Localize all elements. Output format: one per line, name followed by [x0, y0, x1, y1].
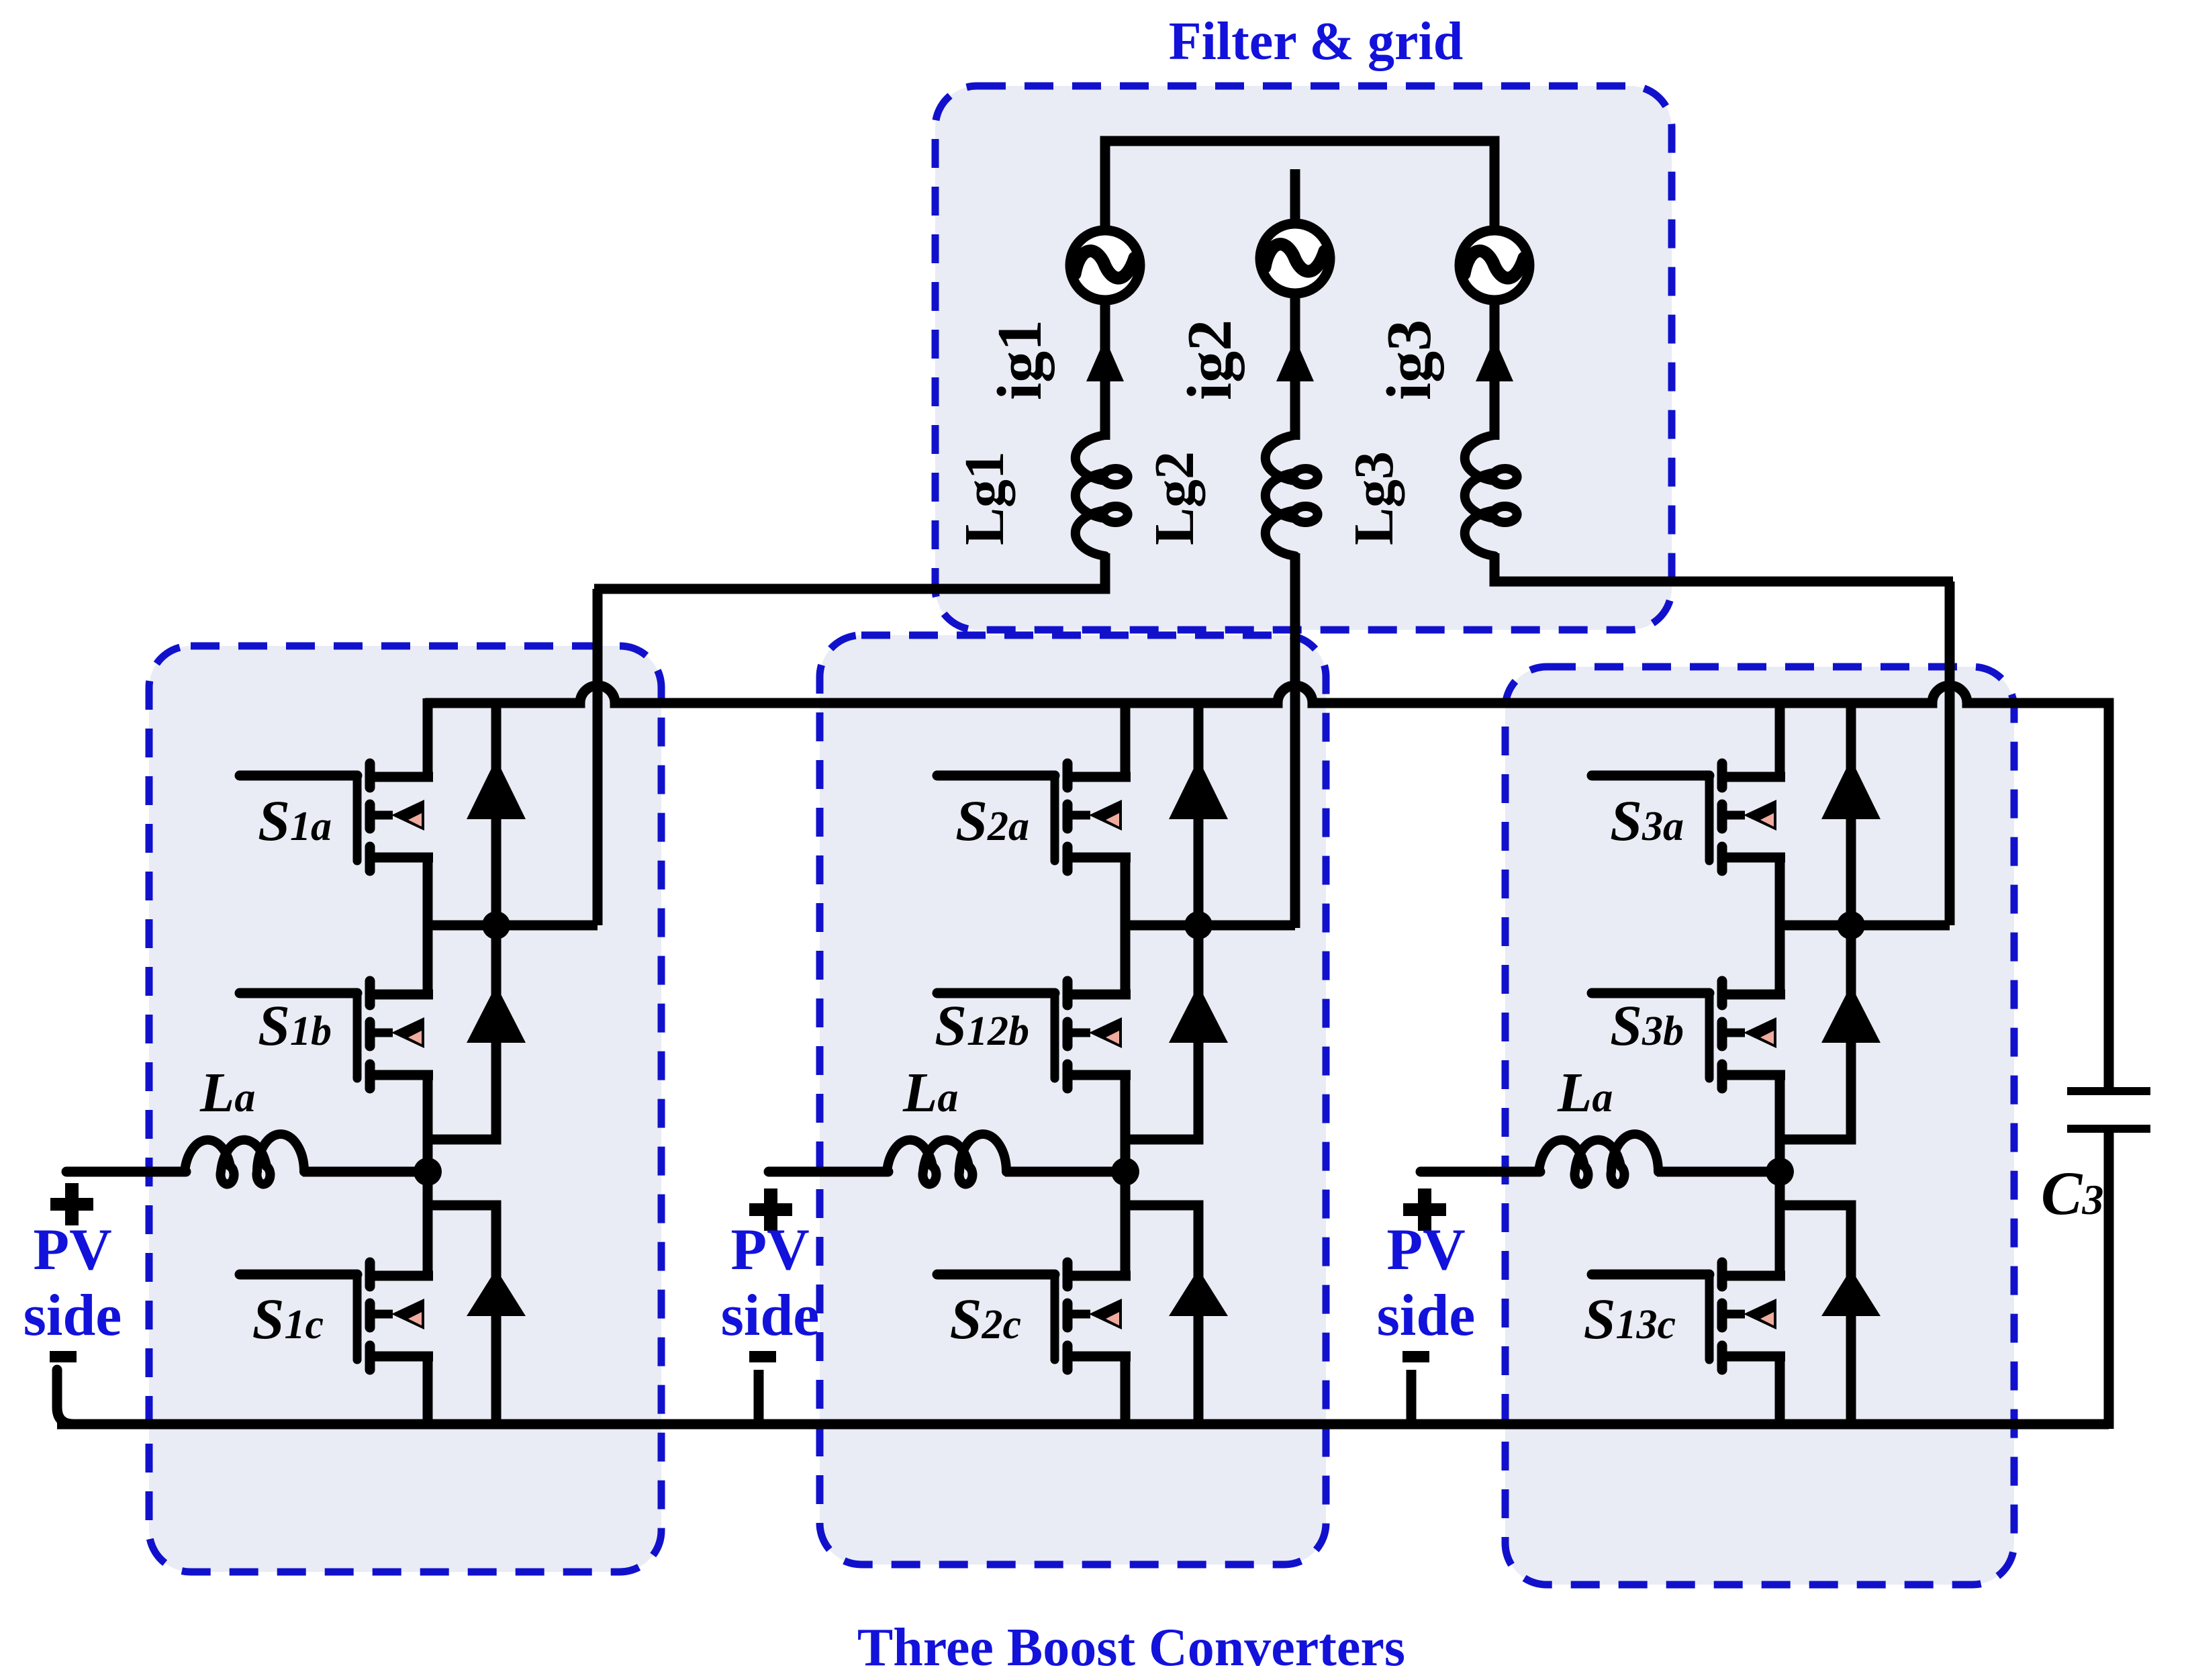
node A2 junction [1184, 911, 1212, 939]
wire S3c source to bottom rail [1775, 1356, 1785, 1424]
wire diode D2a vertical [1194, 703, 1204, 925]
wire La to phase node 1 [303, 1167, 428, 1177]
wire capacitor C3 to bottom rail [2104, 1129, 2114, 1429]
wire branch to diode D3c [1780, 1205, 1851, 1424]
wire Lg2 down continuation [1290, 553, 1300, 591]
boost converter 1 dashed enclosure [149, 646, 661, 1572]
node A1 junction [482, 911, 510, 939]
diode D3b [1821, 985, 1881, 1043]
svg-text:Lg1: Lg1 [953, 451, 1016, 545]
svg-text:side: side [23, 1283, 122, 1348]
svg-text:Lg3: Lg3 [1343, 451, 1405, 545]
label PV side (converter 1) [23, 1217, 122, 1348]
filter & grid dashed enclosure [935, 86, 1672, 630]
AC grid source vg2 [1260, 224, 1330, 293]
node La1 junction [414, 1158, 442, 1186]
wire S3a source to S3b drain [1775, 857, 1785, 994]
wire S1b source to S1c drain [423, 1075, 433, 1276]
AC grid source vg1 [1070, 230, 1140, 300]
wire PV1 positive lead [66, 1167, 186, 1177]
wire S2a drain to top bus [1121, 698, 1131, 777]
capacitor C3 [2067, 1091, 2150, 1129]
svg-text:PV: PV [33, 1217, 111, 1282]
inductor La (converter 2) [887, 1134, 1006, 1184]
transistor S1c [240, 1262, 433, 1370]
current arrow ig2 [1276, 338, 1314, 381]
wire PV2 minus to bottom rail [754, 1370, 764, 1424]
wire PV2 positive lead [769, 1167, 888, 1177]
svg-text:side: side [721, 1283, 820, 1348]
current arrow ig1 [1086, 338, 1124, 381]
transistor S2c [937, 1262, 1131, 1370]
wire La to phase node 2 [1005, 1167, 1125, 1177]
wire top DC bus with crossover hops [425, 686, 2109, 703]
wire phase 1 output up to Lg1 [593, 589, 603, 925]
inductor Lg2 [1266, 435, 1318, 556]
transistor S3b [1592, 981, 1785, 1088]
PV2 minus terminal [749, 1351, 776, 1362]
wire node A2 horizontal [1125, 921, 1295, 931]
wire S2c source to bottom rail [1121, 1356, 1131, 1424]
diode D2a [1169, 759, 1228, 819]
svg-text:ig3: ig3 [1374, 320, 1444, 400]
wire node A1 horizontal [428, 921, 598, 931]
transistor S13c [1592, 1262, 1785, 1370]
wire S1a drain to top bus [423, 698, 433, 777]
wire S2a source to S2b drain [1121, 857, 1131, 994]
transistor S2a [937, 763, 1131, 871]
wire node A3 horizontal [1780, 921, 1950, 931]
wire PV3 minus to bottom rail [1407, 1370, 1417, 1424]
wire branch to diode D2c [1125, 1205, 1198, 1424]
diode D1c [467, 1269, 526, 1316]
PV1 plus terminal [50, 1183, 93, 1225]
svg-text:side: side [1377, 1283, 1476, 1348]
wire diode D3b vertical and jog [1780, 925, 1851, 1139]
transistor S12b [937, 981, 1131, 1088]
node A3 junction [1837, 911, 1865, 939]
wire S2b source to S2c drain [1121, 1075, 1131, 1276]
label PV side (converter 3) [1377, 1217, 1476, 1348]
wire S1a source to S1b drain [423, 857, 433, 994]
wire Lg1 to phase 1 column [594, 553, 1105, 589]
wire PV3 positive lead [1421, 1167, 1540, 1177]
diode D2c [1169, 1269, 1228, 1316]
current arrow ig3 [1476, 338, 1513, 381]
wire top bus to capacitor C3 [2104, 703, 2109, 1091]
wire grid source 2 to arrow [1290, 293, 1300, 384]
boost converter 3 dashed enclosure [1505, 667, 2014, 1585]
inductor Lg3 [1465, 435, 1517, 556]
wire PV1 minus to bottom rail [57, 1370, 74, 1424]
node La3 junction [1766, 1158, 1794, 1186]
inductor La (converter 1) [185, 1134, 304, 1184]
wire diode D2b vertical and jog [1125, 925, 1198, 1139]
wire diode D3a vertical [1846, 703, 1856, 925]
wire grid top bus [1105, 141, 1494, 234]
svg-text:PV: PV [1386, 1217, 1465, 1282]
wire diode D1a vertical [491, 703, 502, 925]
svg-text:Three Boost Converters: Three Boost Converters [857, 1618, 1405, 1677]
svg-text:C3: C3 [2041, 1159, 2103, 1227]
wire La to phase node 3 [1657, 1167, 1780, 1177]
wire arrow to inductor Lg3 [1490, 376, 1500, 440]
wire S1c source to bottom rail [423, 1356, 433, 1424]
wire phase 3 output up to Lg3 [1945, 581, 1955, 925]
wire arrow to inductor Lg2 [1290, 376, 1300, 440]
wire grid source 3 to arrow [1490, 300, 1500, 384]
wire S3b source to S3c drain [1775, 1075, 1785, 1276]
PV3 minus terminal [1402, 1351, 1429, 1362]
transistor S1b [240, 981, 433, 1088]
svg-text:Filter & grid: Filter & grid [1169, 12, 1463, 71]
svg-text:ig1: ig1 [985, 320, 1055, 400]
wire Lg3 to phase 3 column [1494, 553, 1953, 581]
diode D1b [467, 985, 526, 1043]
svg-text:Lg2: Lg2 [1143, 451, 1206, 545]
label PV side (converter 2) [721, 1217, 820, 1348]
transistor S1a [240, 763, 433, 871]
PV2 plus terminal [749, 1188, 792, 1231]
PV3 plus terminal [1403, 1188, 1446, 1231]
svg-text:PV: PV [730, 1217, 809, 1282]
boost converter 2 dashed enclosure [820, 635, 1326, 1565]
diode D1a [467, 759, 526, 819]
wire phase 2 output up to Lg2 [1290, 573, 1300, 928]
wire diode D1b vertical and jog [428, 925, 496, 1139]
wire bottom return rail [57, 1419, 2109, 1430]
diode D3c [1821, 1269, 1881, 1316]
wire S3a drain to top bus [1775, 698, 1785, 777]
wire arrow to inductor Lg1 [1100, 376, 1110, 440]
diode D3a [1821, 759, 1881, 819]
inductor Lg1 [1076, 435, 1128, 556]
node La2 junction [1111, 1158, 1139, 1186]
wire grid source 1 to arrow [1100, 300, 1110, 384]
wire branch to diode D1c [428, 1205, 496, 1424]
diode D2b [1169, 985, 1228, 1043]
AC grid source vg3 [1460, 230, 1529, 300]
svg-text:ig2: ig2 [1175, 320, 1245, 400]
PV1 minus terminal [50, 1351, 77, 1362]
inductor La (converter 3) [1539, 1134, 1658, 1184]
transistor S3a [1592, 763, 1785, 871]
wire grid source 2 stub [1290, 169, 1300, 226]
